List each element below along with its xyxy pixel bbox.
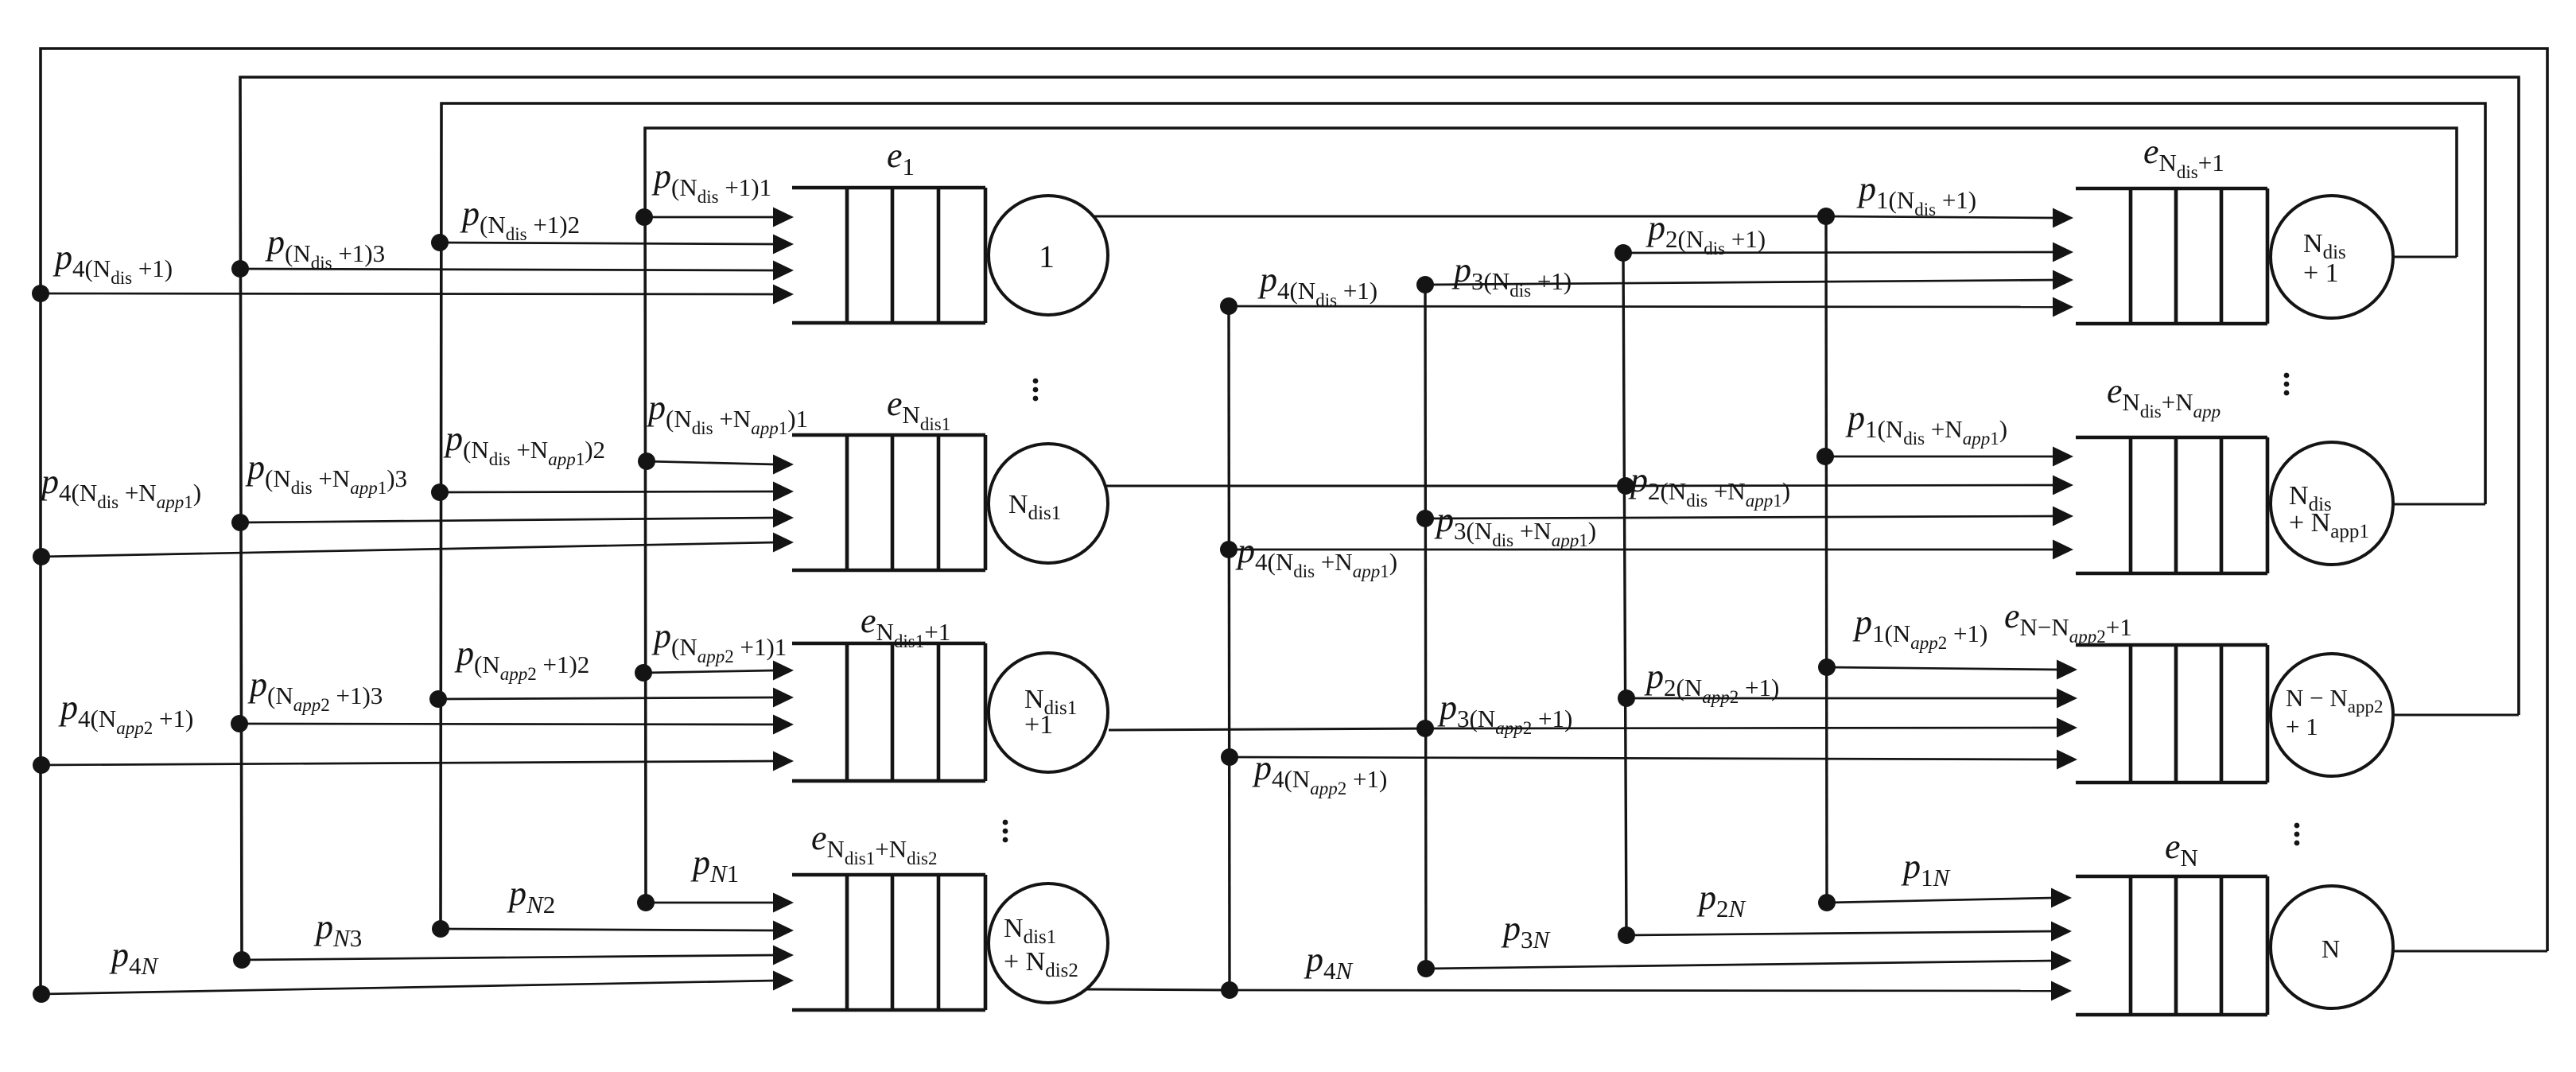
node p(Ndis+1)3 junction [231, 260, 249, 278]
svg-text:+ 1: + 1 [2303, 258, 2339, 288]
node p2(Ndis+Napp1) junction [1617, 477, 1634, 495]
wire server 1 output [1093, 216, 1826, 218]
wire arrow 3 into queue Ndis1+1 [240, 724, 776, 724]
node p(Napp2+1)1 junction [635, 664, 652, 682]
wire arrow 2 into queue N-Napp2+1 [1626, 697, 2060, 700]
node p(Ndis+1)2 junction [431, 234, 449, 251]
wire arrow 4 into queue Ndis1+Ndis2 [41, 981, 776, 994]
node p3(Napp2+1) junction [1416, 720, 1434, 737]
wire arrow 4 into queue N [1230, 990, 2054, 991]
wire arrow 3 into queue Ndis+Napp [1425, 516, 2056, 519]
wire server Ndis+1 output [2391, 256, 2457, 258]
node p4N junction [33, 985, 50, 1003]
wire arrow 2 into queue Ndis1+Ndis2 [441, 929, 776, 930]
server Ndis1 [989, 444, 1108, 563]
wire arrow 4 into queue Ndis1+1 [41, 761, 776, 765]
wire server N output [2391, 950, 2547, 953]
node p2(Ndis+1) junction [1614, 244, 1632, 262]
node p(Ndis+1)1 junction [635, 208, 653, 226]
ellipsis between queue Ndis1+1 and Ndis1+Ndis2 [1003, 820, 1008, 843]
wire arrow 2 into queue N [1626, 931, 2054, 935]
wire arrow 1 into queue 1 [644, 216, 776, 219]
node p3(Ndis+Napp1) junction [1416, 510, 1434, 527]
wire arrow 1 into queue N-Napp2+1 [1827, 667, 2060, 670]
node p3N junction [1417, 960, 1435, 977]
node pN1 junction [637, 894, 655, 911]
server Ndis+Napp1 [2271, 442, 2393, 565]
wire arrow 1 into queue Ndis+Napp [1825, 456, 2056, 458]
node p(Ndis+Napp1)3 junction [231, 514, 249, 531]
wire arrow 4 into queue Ndis+Napp [1229, 549, 2056, 551]
wire server N-Napp2+1 output [2395, 714, 2519, 717]
queue box eNdis1+1 [792, 643, 985, 781]
wire arrow 2 into queue Ndis+Napp [1626, 485, 2056, 486]
node pN3 junction [233, 951, 251, 969]
wire bus p4 (server Ndis1+Ndis2 output column) [1229, 306, 1230, 990]
node p2(Napp2+1) junction [1618, 689, 1635, 707]
queue box eN [2076, 876, 2267, 1015]
wire arrow 1 into queue Ndis1+Ndis2 [646, 902, 776, 904]
wire arrow 4 into queue Ndis1 [41, 542, 776, 557]
node p4(Ndis+Napp1) mid junction [1220, 541, 1237, 558]
queue box eNdis1+Ndis2 [792, 875, 985, 1010]
server N [2271, 886, 2393, 1008]
node p1(Ndis+Napp1) junction [1816, 448, 1834, 465]
wire server Ndis1+1 output [1109, 728, 1425, 730]
wire arrow 1 into queue N [1827, 898, 2054, 903]
node p1(Ndis+1) junction [1817, 208, 1835, 225]
wire arrow 2 into queue Ndis1 [440, 491, 776, 492]
svg-text:N: N [2322, 934, 2340, 963]
wire bus p3 (server Ndis1+1 output column) [1425, 285, 1426, 969]
node p3(Ndis+1) junction [1416, 276, 1434, 293]
queue box eNdis+Napp [2076, 437, 2267, 573]
node p1N junction [1818, 894, 1836, 911]
ellipsis between queue Ndis+1 and Ndis+Napp [2284, 373, 2290, 396]
node p(Ndis+Napp1)1 junction [638, 452, 655, 470]
wire arrow 2 into queue 1 [440, 243, 776, 244]
wire arrow 3 into queue Ndis+1 [1425, 280, 2056, 285]
wire arrow 1 into queue Ndis1 [644, 461, 776, 464]
wire bus p2 (server Ndis1 output column) [1623, 253, 1626, 935]
node p4(Ndis+Napp1) junction [33, 548, 50, 565]
wire arrow 4 into queue Ndis+1 [1229, 306, 2056, 307]
svg-text:1: 1 [1039, 239, 1055, 274]
wire server Ndis1+Ndis2 output [1085, 989, 1230, 990]
wire arrow 2 into queue Ndis1+1 [440, 697, 776, 699]
queue box eNdis1 [792, 435, 985, 570]
queue box eNdis+1 [2076, 188, 2267, 324]
node p2N junction [1618, 926, 1635, 944]
svg-text:+1: +1 [1024, 710, 1053, 740]
node p(Ndis+Napp1)2 junction [431, 484, 449, 501]
node p4(Napp2+1) mid junction [1221, 748, 1238, 766]
server 1 [989, 196, 1108, 315]
wire server Ndis+Napp1 output [2392, 503, 2485, 506]
wire feedback from server Ndis+1 [645, 128, 2457, 903]
wire feedback from server N-Napp2+1 [240, 77, 2519, 960]
node p1(Napp2+1) junction [1818, 658, 1836, 676]
svg-text:+ 1: + 1 [2286, 713, 2318, 740]
server Ndis1+Ndis2 [989, 884, 1108, 1003]
wire arrow 2 into queue Ndis+1 [1623, 252, 2056, 253]
queue box e1 [792, 188, 985, 323]
server N-Napp2+1 [2271, 654, 2393, 776]
wire arrow 1 into queue Ndis1+1 [644, 670, 776, 673]
wire arrow 3 into queue Ndis1 [240, 518, 776, 522]
wire arrow 1 into queue Ndis+1 [1826, 216, 2056, 218]
wire server Ndis1 output [1106, 485, 1626, 487]
wire bus p1 (server 1 output column) [1826, 216, 1827, 903]
node pN2 junction [432, 920, 449, 938]
node p(Napp2+1)3 junction [231, 715, 248, 732]
node p4N mid junction [1221, 981, 1238, 999]
wire arrow 3 into queue N [1426, 961, 2054, 969]
wire arrow 4 into queue 1 [41, 293, 776, 294]
ellipsis between queue N-Napp2+1 and N [2294, 823, 2300, 846]
wire arrow 3 into queue 1 [240, 269, 776, 270]
node p4(Ndis+1) junction [32, 285, 49, 302]
queue box eN-Napp2+1 [2076, 645, 2267, 783]
wire arrow 3 into queue N-Napp2+1 [1425, 728, 2060, 728]
ellipsis between queue 1 and Ndis1 [1033, 379, 1039, 402]
server Ndis+1 [2271, 196, 2393, 318]
wire arrow 4 into queue N-Napp2+1 [1230, 757, 2060, 759]
server Ndis1+1 [989, 653, 1108, 772]
node p4(Napp2+1) junction [33, 756, 50, 774]
node p(Napp2+1)2 junction [429, 690, 447, 708]
wire arrow 3 into queue Ndis1+Ndis2 [242, 955, 776, 960]
node p4(Ndis+1) mid junction [1220, 297, 1237, 315]
wire feedback from server Ndis+Napp1 [441, 103, 2485, 929]
